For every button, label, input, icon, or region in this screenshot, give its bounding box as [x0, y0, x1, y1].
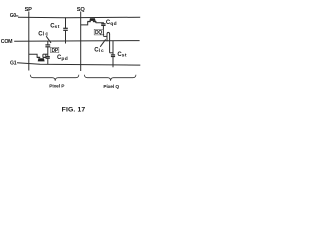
wire: DP node (TFT P drain to capacitor column) — [43, 53, 48, 55]
svg-text:Cpd: Cpd — [57, 55, 68, 62]
svg-text:Clc: Clc — [94, 48, 104, 54]
transistor TFT Q (pixel Q, gate on G0) — [81, 18, 104, 25]
wire: DQ node with arrowhead — [103, 34, 108, 36]
wire: source line SQ — [80, 12, 82, 72]
svg-text:DP: DP — [52, 48, 59, 54]
svg-text:COM: COM — [1, 39, 13, 45]
label DQ — [94, 29, 103, 36]
capacitor Cqd (pixel Q) — [101, 24, 105, 35]
svg-text:FIG. 17: FIG. 17 — [62, 106, 86, 113]
svg-text:Pixel Q: Pixel Q — [103, 84, 119, 90]
capacitor Cst (pixel Q) — [111, 41, 115, 67]
wire: gate line G0 — [16, 16, 140, 18]
capacitor Clc (pixel P) — [45, 41, 50, 54]
capacitor Cpd (pixel P) — [46, 54, 50, 64]
svg-text:Cqd: Cqd — [106, 20, 117, 27]
svg-text:G0: G0 — [10, 13, 17, 19]
svg-text:G1: G1 — [10, 60, 17, 66]
svg-text:Cst: Cst — [50, 23, 60, 30]
wire: gate line G1 — [17, 63, 140, 65]
wire: COM line — [14, 40, 139, 43]
capacitor Cst (pixel P) — [63, 17, 68, 43]
wire: source line SP — [28, 12, 30, 71]
svg-text:SQ: SQ — [77, 7, 86, 13]
svg-text:DQ: DQ — [95, 30, 102, 36]
label Clc (pixel Q) with leader line — [94, 39, 105, 54]
svg-text:Clc: Clc — [38, 31, 49, 37]
svg-text:Pixel P: Pixel P — [49, 84, 65, 90]
brace for Pixel Q — [84, 75, 135, 81]
svg-text:SP: SP — [25, 7, 33, 13]
label DP — [51, 47, 59, 54]
brace for Pixel P — [30, 75, 79, 81]
capacitor Clc (pixel Q, loop symbol) — [107, 32, 113, 52]
transistor TFT P (pixel P, gate on G1) — [29, 54, 47, 61]
label Clc (pixel P) with leader line — [38, 31, 51, 43]
svg-text:Cst: Cst — [117, 52, 127, 59]
